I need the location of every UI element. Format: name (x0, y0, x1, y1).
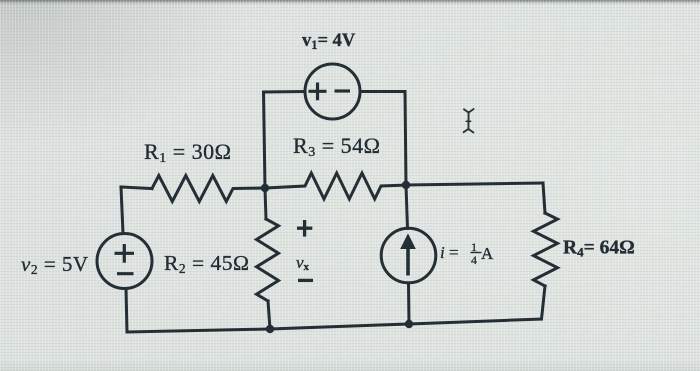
svg-text:v2 = 5V: v2 = 5V (21, 252, 89, 277)
svg-text:R1 = 30Ω: R1 = 30Ω (144, 139, 231, 166)
svg-text:R4= 64Ω: R4= 64Ω (563, 238, 635, 260)
svg-text:vx: vx (296, 253, 310, 273)
svg-text:A: A (481, 244, 494, 263)
svg-text:v1= 4V: v1= 4V (302, 31, 356, 52)
svg-text:R3 = 54Ω: R3 = 54Ω (293, 133, 380, 160)
svg-text:i =: i = (440, 243, 459, 262)
svg-text:R2 = 45Ω: R2 = 45Ω (164, 251, 249, 276)
svg-text:4: 4 (471, 253, 477, 267)
